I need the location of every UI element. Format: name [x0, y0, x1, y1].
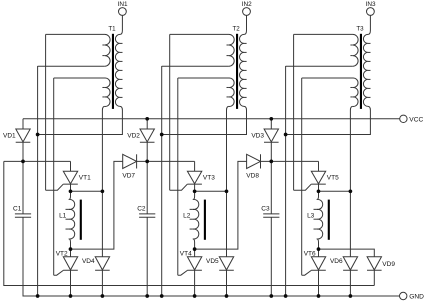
- svg-text:VT5: VT5: [327, 175, 339, 182]
- svg-text:IN1: IN1: [118, 1, 128, 8]
- svg-text:C2: C2: [137, 206, 146, 213]
- svg-text:VT1: VT1: [79, 175, 91, 182]
- svg-text:IN3: IN3: [366, 1, 376, 8]
- svg-text:VT6: VT6: [304, 251, 316, 258]
- svg-text:L1: L1: [59, 213, 67, 220]
- svg-text:VD9: VD9: [382, 261, 395, 268]
- svg-text:T3: T3: [356, 25, 364, 32]
- svg-text:IN2: IN2: [242, 1, 252, 8]
- svg-text:VD7: VD7: [122, 172, 135, 179]
- svg-text:VD8: VD8: [246, 172, 259, 179]
- svg-text:VD5: VD5: [206, 258, 219, 265]
- svg-text:L3: L3: [307, 213, 315, 220]
- svg-text:GND: GND: [409, 294, 424, 301]
- svg-text:T1: T1: [108, 25, 116, 32]
- svg-text:VD6: VD6: [330, 258, 343, 265]
- svg-text:VD4: VD4: [82, 258, 95, 265]
- svg-text:VD3: VD3: [251, 132, 264, 139]
- svg-text:VT3: VT3: [203, 175, 215, 182]
- svg-text:VD1: VD1: [3, 132, 16, 139]
- svg-text:VCC: VCC: [409, 116, 423, 123]
- svg-text:T2: T2: [232, 25, 240, 32]
- svg-text:VD2: VD2: [127, 132, 140, 139]
- svg-text:VT2: VT2: [56, 251, 68, 258]
- svg-text:C1: C1: [13, 206, 22, 213]
- svg-text:C3: C3: [261, 206, 270, 213]
- svg-text:VT4: VT4: [180, 251, 192, 258]
- svg-text:L2: L2: [183, 213, 191, 220]
